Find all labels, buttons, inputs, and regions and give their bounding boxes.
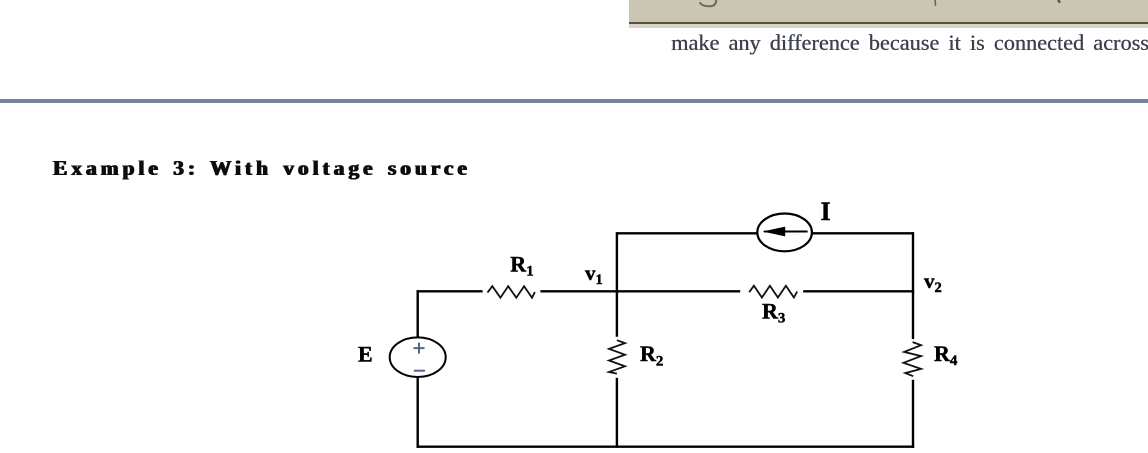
wire: bottom rail xyxy=(417,446,915,448)
resistor R2 zigzag xyxy=(609,340,625,373)
wire: right vertical lower (R4 to bottom rail) xyxy=(912,380,914,448)
wire: middle horizontal left segment (node to R1) xyxy=(417,290,483,292)
svg-text:R4: R4 xyxy=(934,341,958,369)
wire: left vertical upper (E top to middle node) xyxy=(417,290,419,338)
wire: top rail with current source xyxy=(617,232,913,234)
resistor R1 zigzag xyxy=(488,286,535,298)
svg-text:R3: R3 xyxy=(762,298,785,326)
svg-text:v1: v1 xyxy=(585,261,603,288)
resistor R3 zigzag xyxy=(749,286,797,298)
heading: Example 3 xyxy=(53,158,471,180)
wire: right vertical upper (top rail to R4) xyxy=(912,232,914,339)
voltage source E body xyxy=(390,337,446,377)
svg-text:R2: R2 xyxy=(640,341,663,369)
wire: middle horizontal v1-to-R3 segment xyxy=(616,290,740,292)
resistor R4 zigzag xyxy=(904,342,922,376)
scanned page beige strip xyxy=(629,0,1148,28)
wire: middle horizontal R1-to-v1 segment xyxy=(540,290,618,292)
current source I body xyxy=(757,214,812,252)
wire: middle horizontal R3-to-v2 segment xyxy=(803,290,914,292)
slide divider rule xyxy=(0,99,1148,103)
wire: v1 vertical upper (top rail to R2) xyxy=(616,232,618,337)
scanned strip dark rule xyxy=(629,22,1148,24)
current source I arrow xyxy=(764,231,808,233)
svg-text:I: I xyxy=(821,197,831,226)
voltage source E plus mark xyxy=(414,343,425,354)
svg-text:E: E xyxy=(358,342,373,367)
scanned strip pen marks xyxy=(629,0,1148,28)
scanned strip lower band xyxy=(629,24,1148,28)
svg-text:R1: R1 xyxy=(510,251,533,279)
voltage source E minus mark xyxy=(414,370,425,372)
textbook body text xyxy=(671,32,1148,54)
wire: v1 vertical lower (R2 to bottom rail) xyxy=(616,378,618,448)
wire: left vertical lower (E bottom to bottom rail) xyxy=(417,377,419,448)
svg-text:v2: v2 xyxy=(924,269,942,296)
